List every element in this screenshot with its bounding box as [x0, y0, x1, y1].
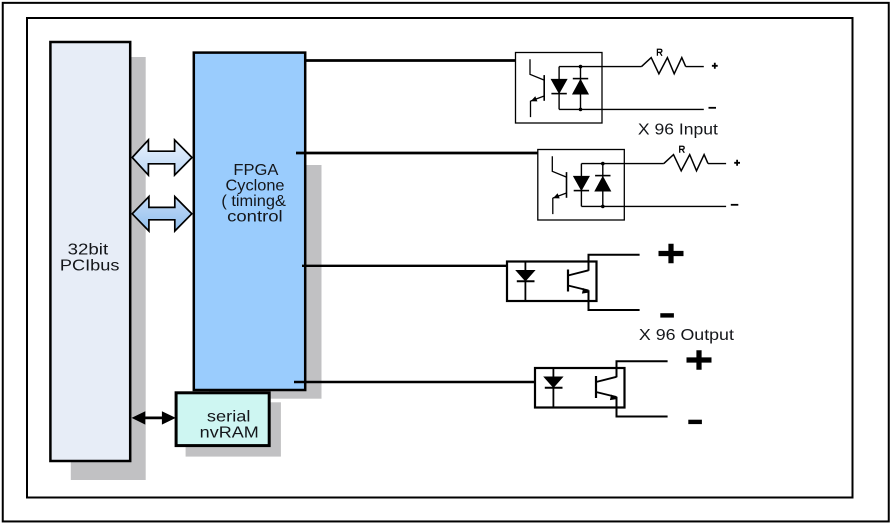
svg-text:nvRAM: nvRAM [200, 425, 259, 442]
svg-text:( timing&: ( timing& [221, 193, 286, 210]
svg-text:PCIbus: PCIbus [60, 258, 120, 275]
svg-text:FPGA: FPGA [233, 162, 278, 179]
svg-text:Cyclone: Cyclone [226, 178, 285, 195]
svg-text:X 96 Output: X 96 Output [639, 327, 735, 344]
svg-text:X 96 Input: X 96 Input [638, 121, 719, 138]
svg-text:control: control [227, 209, 283, 226]
svg-text:serial: serial [207, 408, 251, 425]
svg-text:32bit: 32bit [68, 241, 109, 258]
